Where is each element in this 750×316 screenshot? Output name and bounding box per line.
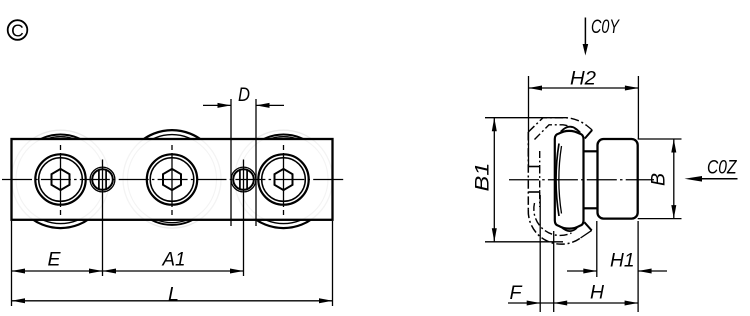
dimension H2 line and arrows	[529, 86, 639, 91]
H1/H right extension line	[637, 221, 639, 312]
B1 extension line bottom	[485, 241, 563, 243]
view label C balloon	[8, 20, 28, 40]
dimension B line and arrows	[671, 139, 676, 219]
clamp jaw tip top right thin edge (solid)	[587, 126, 592, 130]
dimension L line and arrows	[12, 298, 333, 303]
svg-text:B: B	[649, 173, 670, 186]
clamp inner band top (dashed)	[535, 125, 581, 140]
rail bar	[12, 139, 333, 220]
dimension H1 line and arrows	[567, 269, 667, 274]
svg-text:E: E	[48, 250, 61, 271]
svg-text:B1: B1	[473, 163, 494, 192]
svg-text:C0Z: C0Z	[707, 158, 738, 179]
svg-text:F: F	[510, 283, 523, 304]
roller edge peeking bottom	[562, 227, 578, 231]
clamp jaw tip bottom right thick edge (solid)	[584, 222, 591, 230]
dimension D extension lines	[230, 99, 232, 226]
clamp slot inner edge	[539, 167, 541, 193]
screw 1	[35, 145, 85, 216]
extension line bar right edge	[332, 221, 334, 306]
dimension D line and arrows	[203, 103, 284, 108]
bushing body	[555, 131, 584, 229]
roller cylinder	[598, 139, 638, 219]
roller 1 top cap (engaged side)	[12, 130, 110, 228]
roller at screw 172 ghost outline	[123, 130, 221, 228]
front view horizontal centerline	[2, 179, 344, 181]
roller edge peeking top	[561, 127, 579, 132]
svg-text:C0Y: C0Y	[591, 17, 620, 38]
pin 1	[90, 160, 115, 223]
screw 2	[147, 145, 197, 216]
clamp slot top edge	[528, 166, 539, 168]
svg-text:C: C	[11, 20, 24, 40]
roller at screw 283.5 ghost outline	[235, 130, 333, 228]
clamp inner band left wall lower	[539, 192, 541, 207]
clamp outer profile left edge	[527, 132, 529, 210]
side view centerline	[509, 179, 654, 181]
clamp outer profile bottom arc	[528, 210, 580, 244]
neck bottom edge	[584, 207, 598, 209]
extension line bar left edge	[11, 221, 13, 306]
clamp outer profile (dashed) top	[528, 118, 587, 132]
B extension line top	[638, 138, 682, 140]
dimension B1 line and arrows	[492, 118, 497, 242]
dimension F line and arrows	[508, 301, 554, 306]
svg-text:H2: H2	[570, 69, 596, 90]
svg-text:H: H	[590, 283, 604, 304]
clamp jaw tip bottom right thin edge (solid)	[581, 230, 592, 238]
B extension line bottom	[638, 218, 682, 220]
svg-text:H1: H1	[610, 251, 635, 272]
H1 left extension line	[596, 221, 598, 277]
roller 1 bottom cap (protruding)	[12, 130, 110, 228]
pin 2	[231, 160, 256, 223]
roller 3 top cap (engaged side)	[235, 130, 333, 228]
svg-text:A1: A1	[162, 250, 186, 271]
bushing crescent arc outer	[556, 144, 559, 217]
svg-text:L: L	[168, 285, 179, 306]
bushing crescent arc inner	[559, 146, 562, 214]
clamp inner band left wall upper	[539, 151, 541, 167]
clamp slot bottom edge	[528, 191, 539, 193]
H2 right extension line	[637, 76, 639, 139]
roller at screw 60.5 ghost outline	[12, 130, 110, 228]
clamp inner band bottom (dashed)	[534, 203, 572, 235]
neck top edge	[584, 150, 598, 152]
roller 2 bottom cap (engaged side)	[123, 130, 221, 228]
load arrow C0Z	[685, 176, 738, 182]
dimension H line and arrows	[554, 301, 638, 306]
F right / H left extension line	[553, 231, 555, 312]
dimension A1 line and arrows	[103, 269, 244, 274]
F left extension line	[539, 195, 541, 312]
svg-text:D: D	[238, 85, 250, 106]
H2 left extension line	[528, 76, 530, 167]
B1 extension line top	[485, 117, 567, 119]
roller 3 bottom cap (protruding)	[235, 130, 333, 228]
pin 1 extension line	[102, 222, 104, 276]
roller 2 top cap (protruding)	[123, 130, 221, 228]
screw 3	[258, 145, 308, 216]
pin 2 extension line	[243, 222, 245, 276]
load arrow C0Y	[583, 18, 589, 56]
dimension E line and arrows	[12, 269, 103, 274]
clamp jaw tip top right thick edge (solid)	[585, 130, 592, 139]
